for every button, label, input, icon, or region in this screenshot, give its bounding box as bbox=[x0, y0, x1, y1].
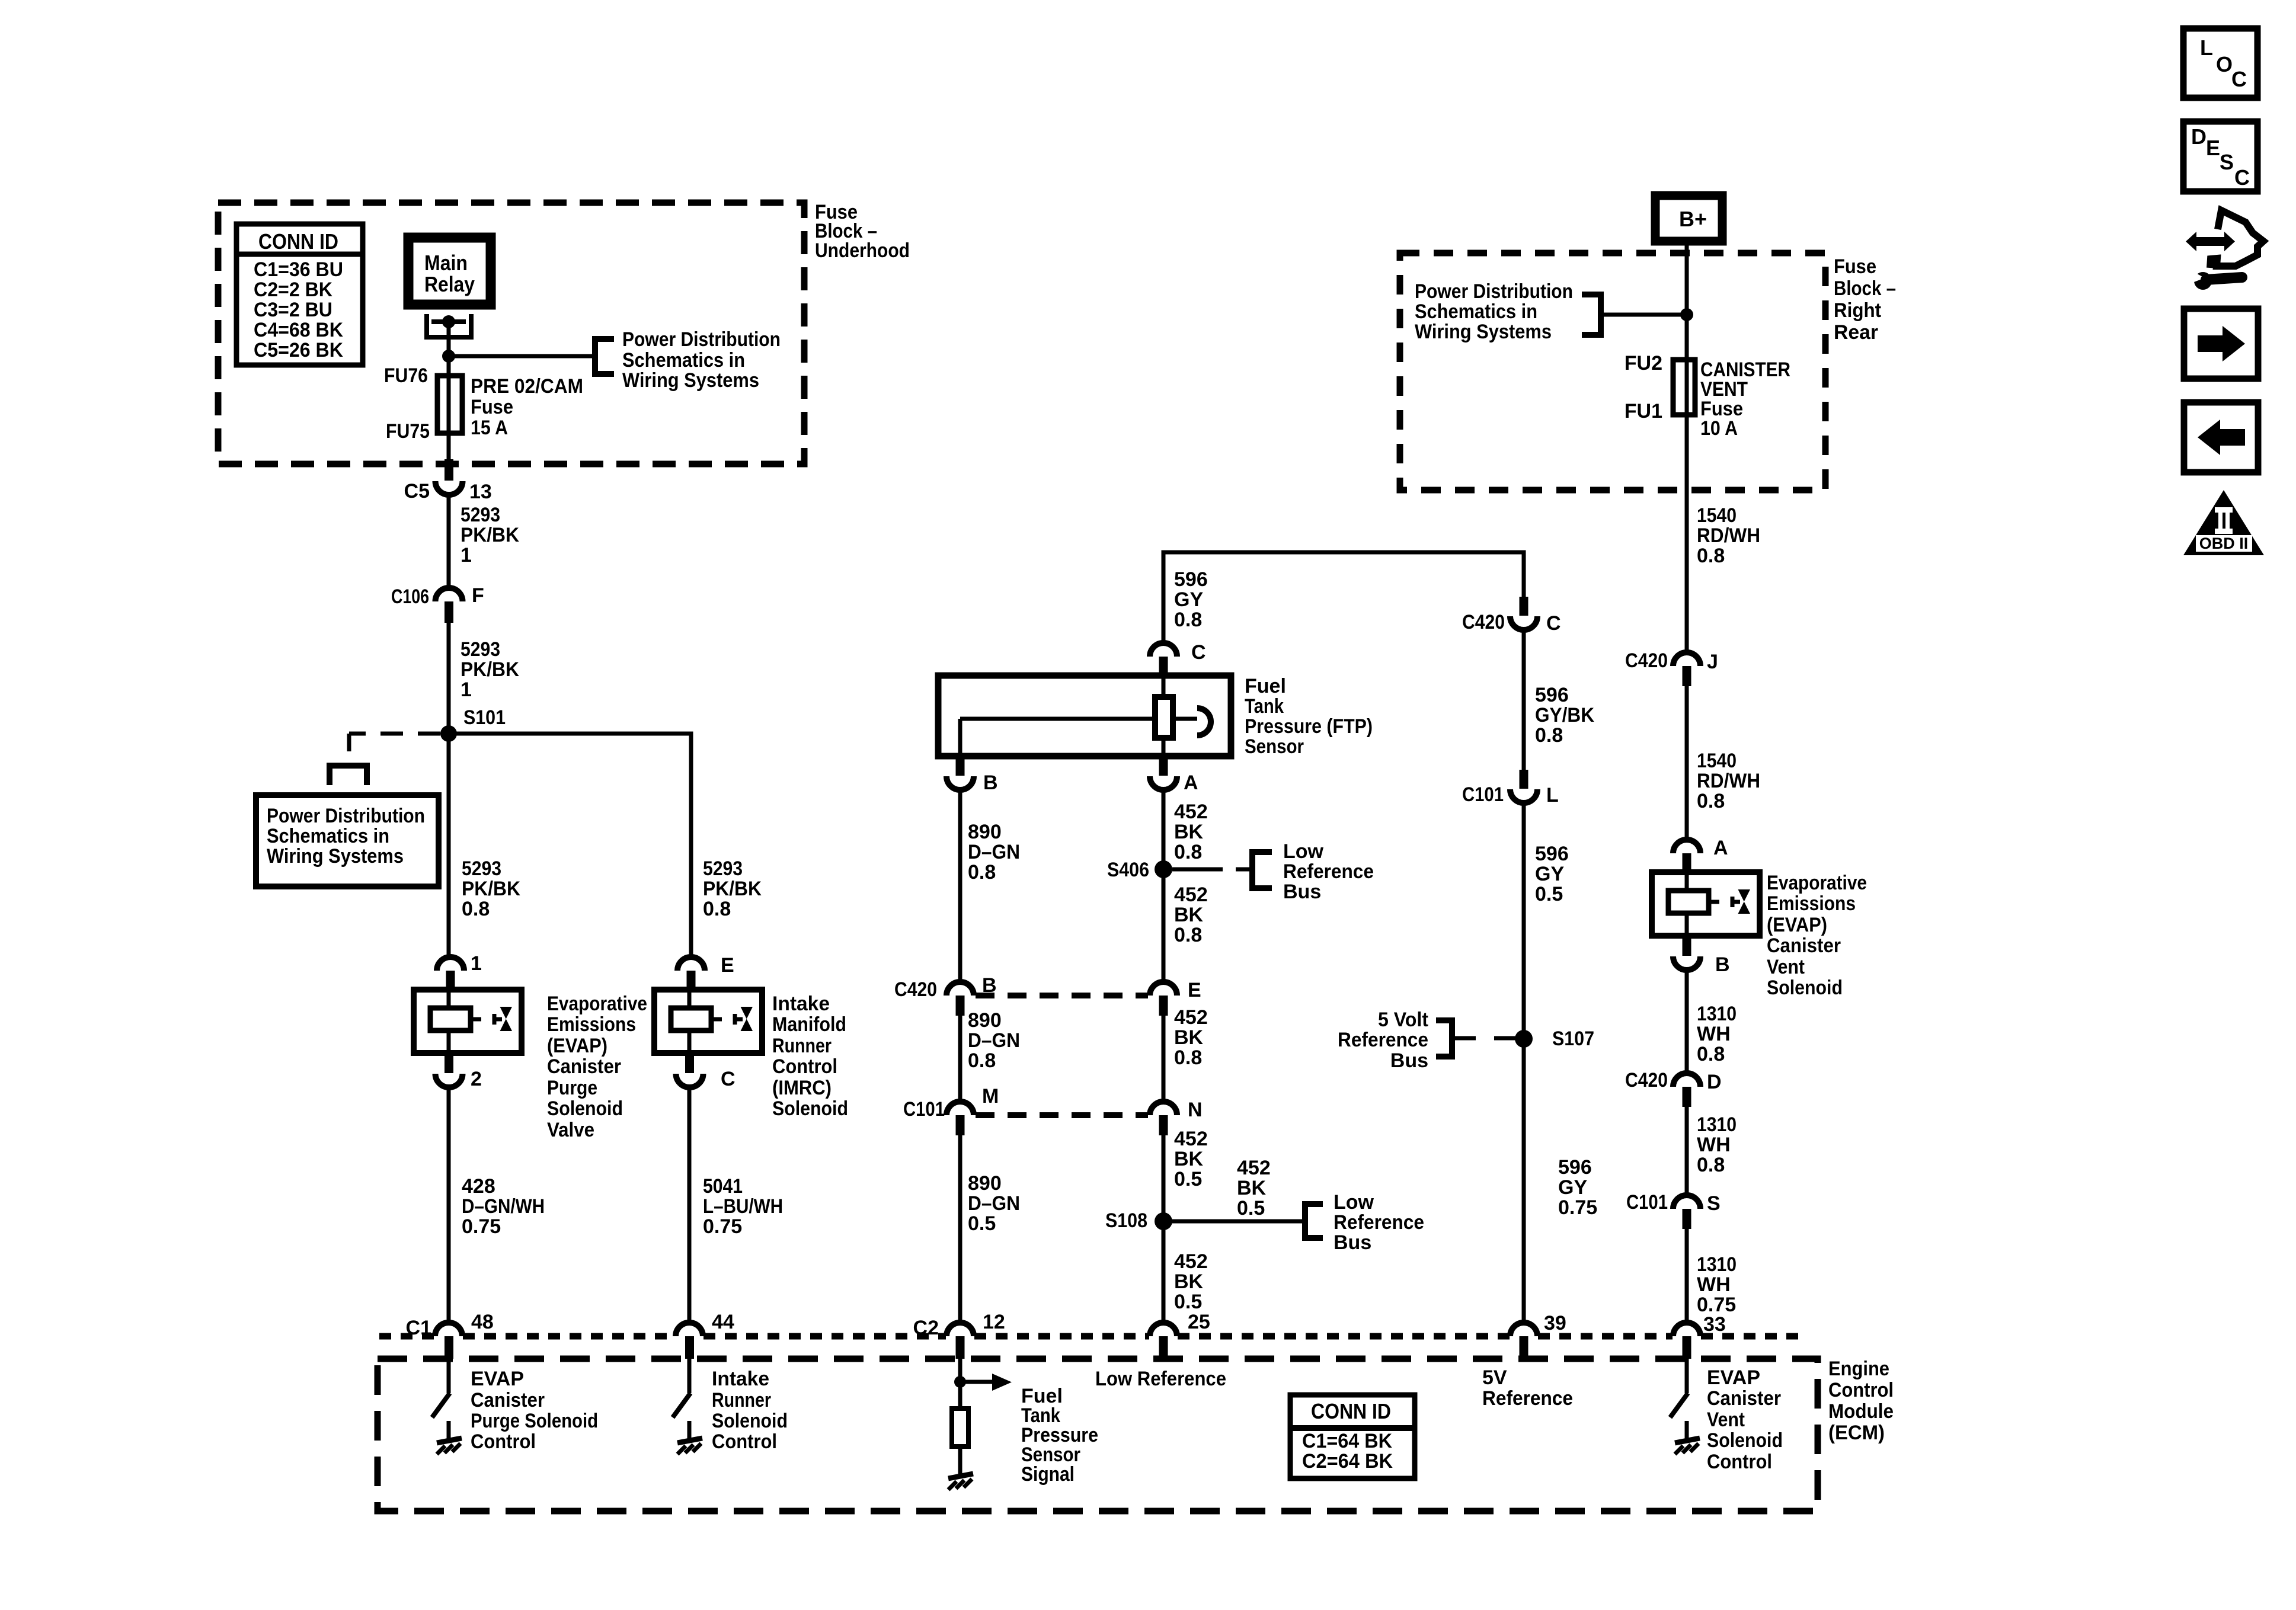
svg-text:0.8: 0.8 bbox=[462, 898, 490, 920]
wire: S down to 33 bbox=[1685, 1229, 1689, 1323]
svg-text:S: S bbox=[1707, 1192, 1721, 1215]
svg-text:Sensor: Sensor bbox=[1245, 735, 1304, 758]
svg-text:452: 452 bbox=[1174, 1250, 1208, 1273]
svg-text:C420: C420 bbox=[1462, 611, 1505, 633]
wire: pin C down to 44 bbox=[687, 1087, 692, 1323]
bracket: 5 volt reference bus bbox=[1436, 1020, 1452, 1057]
connector pin C (female half) bbox=[685, 1053, 694, 1073]
wire: FTP B down to C420 B bbox=[958, 790, 962, 982]
dashed link: S406 to low reference bus bracket bbox=[1172, 868, 1223, 872]
svg-text:WH: WH bbox=[1697, 1134, 1731, 1156]
connector C101 L (female half) bbox=[1520, 770, 1528, 789]
svg-text:39: 39 bbox=[1544, 1312, 1566, 1334]
wire: B to M bbox=[958, 1016, 962, 1102]
svg-text:5V: 5V bbox=[1482, 1366, 1507, 1389]
svg-text:Fuse: Fuse bbox=[471, 396, 513, 418]
wire: B down to C420 D bbox=[1685, 970, 1689, 1073]
svg-text:C: C bbox=[721, 1068, 736, 1090]
svg-text:A: A bbox=[1184, 772, 1198, 794]
svg-text:Runner: Runner bbox=[772, 1035, 832, 1057]
relay contact symbol bbox=[427, 314, 471, 337]
svg-text:0.8: 0.8 bbox=[1535, 724, 1563, 747]
svg-text:Power Distribution: Power Distribution bbox=[267, 805, 425, 827]
svg-text:S: S bbox=[2220, 150, 2234, 174]
svg-text:(IMRC): (IMRC) bbox=[772, 1077, 832, 1099]
svg-text:1: 1 bbox=[461, 544, 472, 566]
svg-text:Underhood: Underhood bbox=[815, 239, 910, 262]
svg-text:Evaporative: Evaporative bbox=[1767, 872, 1867, 894]
svg-text:D–GN: D–GN bbox=[968, 841, 1020, 863]
svg-text:Low: Low bbox=[1334, 1191, 1374, 1214]
svg-text:Emissions: Emissions bbox=[1767, 892, 1856, 915]
switch blade col1 bbox=[432, 1393, 450, 1417]
wire: S101 down to EVAP purge solenoid bbox=[447, 734, 451, 957]
svg-text:L–BU/WH: L–BU/WH bbox=[703, 1195, 783, 1218]
svg-text:Valve: Valve bbox=[547, 1119, 594, 1141]
dashed pair line C420 B-E bbox=[976, 993, 1148, 998]
svg-text:C2=2 BK: C2=2 BK bbox=[254, 279, 332, 301]
icon: back arrow box bbox=[2184, 402, 2258, 472]
wire into ECM col6 bbox=[1685, 1359, 1689, 1393]
wire: C106 to S101 bbox=[447, 623, 451, 734]
svg-text:25: 25 bbox=[1188, 1311, 1210, 1333]
svg-text:Vent: Vent bbox=[1707, 1409, 1745, 1431]
svg-text:0.5: 0.5 bbox=[1174, 1291, 1202, 1313]
svg-text:0.8: 0.8 bbox=[968, 1049, 996, 1072]
svg-text:Low: Low bbox=[1283, 840, 1324, 863]
svg-text:C420: C420 bbox=[1625, 1069, 1668, 1092]
svg-text:Engine: Engine bbox=[1828, 1358, 1889, 1380]
svg-text:BK: BK bbox=[1174, 1148, 1204, 1170]
svg-text:N: N bbox=[1188, 1099, 1203, 1121]
svg-text:C: C bbox=[1191, 641, 1206, 664]
svg-text:1310: 1310 bbox=[1697, 1113, 1737, 1136]
svg-text:5293: 5293 bbox=[461, 504, 500, 526]
icon: LOC box bbox=[2183, 28, 2257, 98]
bracket: low reference bus (S406) bbox=[1252, 852, 1272, 888]
svg-text:C101: C101 bbox=[903, 1098, 945, 1121]
connector pin 33 (male half at ECM) bbox=[1673, 1323, 1700, 1336]
svg-text:C: C bbox=[2231, 67, 2247, 91]
svg-text:D–GN: D–GN bbox=[968, 1192, 1020, 1215]
svg-text:OBD II: OBD II bbox=[2199, 534, 2249, 552]
wire: B+ down through fuse bbox=[1685, 241, 1689, 653]
svg-text:M: M bbox=[982, 1085, 999, 1108]
connector pin A of FTP (female half) bbox=[1159, 756, 1168, 776]
svg-text:C1=36 BU: C1=36 BU bbox=[254, 258, 343, 281]
svg-text:BK: BK bbox=[1237, 1177, 1267, 1199]
wire into ECM col1 bbox=[447, 1359, 451, 1393]
svg-text:BK: BK bbox=[1174, 821, 1204, 843]
svg-text:O: O bbox=[2216, 52, 2233, 76]
wire to resistor bbox=[958, 1382, 962, 1409]
svg-text:Canister: Canister bbox=[1767, 934, 1841, 957]
lower stub col1 bbox=[447, 1421, 451, 1439]
svg-text:Wiring Systems: Wiring Systems bbox=[267, 845, 404, 868]
svg-text:Emissions: Emissions bbox=[547, 1013, 636, 1036]
svg-text:J: J bbox=[1707, 651, 1718, 673]
icon: forward arrow box bbox=[2184, 309, 2258, 379]
svg-text:Reference: Reference bbox=[1334, 1211, 1424, 1234]
connector C2 pin 12 (male half at ECM) bbox=[946, 1323, 974, 1336]
svg-text:PK/BK: PK/BK bbox=[461, 658, 519, 681]
wire into ECM col3 bbox=[958, 1359, 962, 1382]
svg-text:F: F bbox=[472, 584, 484, 607]
svg-text:0.8: 0.8 bbox=[1697, 1154, 1725, 1176]
svg-text:Solenoid: Solenoid bbox=[772, 1097, 848, 1120]
svg-text:10 A: 10 A bbox=[1700, 417, 1738, 440]
signal arrow bbox=[960, 1380, 992, 1384]
connector C106 pin F (male half) bbox=[436, 588, 463, 601]
fuse FU1/FU2 CANISTER VENT 10A bbox=[1673, 360, 1695, 415]
svg-text:WH: WH bbox=[1697, 1273, 1731, 1296]
svg-text:PK/BK: PK/BK bbox=[462, 878, 520, 900]
svg-text:D: D bbox=[2191, 124, 2207, 149]
svg-text:0.8: 0.8 bbox=[1697, 790, 1725, 812]
svg-text:Canister: Canister bbox=[547, 1055, 621, 1078]
svg-text:1310: 1310 bbox=[1697, 1253, 1737, 1276]
connector C101 M (male half) bbox=[946, 1102, 974, 1115]
switch blade col6 bbox=[1670, 1393, 1688, 1417]
svg-text:PK/BK: PK/BK bbox=[703, 878, 762, 900]
svg-text:GY: GY bbox=[1535, 863, 1564, 885]
svg-text:Canister: Canister bbox=[471, 1389, 545, 1411]
svg-text:Rear: Rear bbox=[1834, 321, 1878, 344]
svg-text:(EVAP): (EVAP) bbox=[1767, 914, 1827, 936]
connector pin E (male half) bbox=[677, 957, 705, 971]
svg-text:0.8: 0.8 bbox=[1174, 841, 1202, 863]
svg-text:CONN ID: CONN ID bbox=[258, 229, 338, 254]
svg-text:GY: GY bbox=[1558, 1176, 1587, 1199]
svg-text:0.8: 0.8 bbox=[1697, 545, 1725, 567]
junction dot to power distribution tap bbox=[442, 350, 455, 363]
svg-text:596: 596 bbox=[1174, 568, 1208, 591]
fuse block right rear dashed box bbox=[1400, 253, 1825, 490]
svg-text:5293: 5293 bbox=[461, 638, 500, 661]
svg-text:C101: C101 bbox=[1626, 1191, 1668, 1214]
svg-text:44: 44 bbox=[712, 1311, 734, 1333]
svg-text:Canister: Canister bbox=[1707, 1387, 1781, 1410]
Main Relay (bold box) bbox=[408, 238, 491, 305]
ground col3 bbox=[948, 1474, 973, 1490]
svg-text:C5: C5 bbox=[404, 480, 430, 502]
svg-text:WH: WH bbox=[1697, 1023, 1731, 1045]
svg-text:C420: C420 bbox=[894, 978, 937, 1001]
svg-text:Purge Solenoid: Purge Solenoid bbox=[471, 1410, 598, 1432]
wire: S107 down to 39 bbox=[1522, 1039, 1526, 1323]
fuse FU75/FU76 PRE 02/CAM 15A bbox=[437, 376, 462, 433]
connector pin 1 (male half) bbox=[437, 957, 464, 971]
ECM dashed box bbox=[378, 1359, 1818, 1511]
wire: top run from FTP C up and over to C420 C bbox=[1163, 552, 1524, 644]
svg-text:Purge: Purge bbox=[547, 1077, 597, 1099]
svg-text:PRE 02/CAM: PRE 02/CAM bbox=[471, 375, 583, 398]
svg-text:Wiring Systems: Wiring Systems bbox=[1415, 321, 1552, 343]
svg-text:Wiring Systems: Wiring Systems bbox=[622, 369, 759, 392]
connector C420 J (male half) bbox=[1673, 652, 1700, 666]
svg-text:890: 890 bbox=[968, 821, 1002, 843]
svg-text:RD/WH: RD/WH bbox=[1697, 524, 1760, 547]
svg-text:B: B bbox=[983, 772, 998, 794]
svg-text:E: E bbox=[2206, 136, 2220, 160]
connector pin B (female half) bbox=[1683, 936, 1691, 956]
svg-text:452: 452 bbox=[1174, 1006, 1208, 1029]
svg-text:C: C bbox=[1546, 612, 1561, 635]
wire into ECM col2 bbox=[687, 1359, 692, 1393]
svg-text:Power Distribution: Power Distribution bbox=[1415, 280, 1573, 303]
svg-text:Bus: Bus bbox=[1283, 881, 1321, 903]
fuse block underhood dashed box bbox=[218, 203, 804, 464]
splice S101 bbox=[440, 725, 457, 742]
svg-text:Fuse: Fuse bbox=[1834, 255, 1876, 278]
svg-text:Bus: Bus bbox=[1390, 1049, 1428, 1072]
svg-text:Signal: Signal bbox=[1021, 1463, 1075, 1486]
svg-text:B+: B+ bbox=[1679, 207, 1707, 231]
svg-text:RD/WH: RD/WH bbox=[1697, 770, 1760, 792]
connector C1 pin 48 (male half at ECM) bbox=[435, 1323, 462, 1336]
svg-text:C5=26 BK: C5=26 BK bbox=[254, 339, 343, 361]
svg-text:C1=64 BK: C1=64 BK bbox=[1302, 1430, 1392, 1452]
CONN ID table (bottom) bbox=[1290, 1395, 1415, 1478]
splice S107 bbox=[1515, 1030, 1533, 1048]
svg-text:E: E bbox=[721, 954, 734, 977]
connector pin 44 (male half at ECM) bbox=[676, 1323, 703, 1336]
svg-text:0.75: 0.75 bbox=[1558, 1196, 1597, 1219]
svg-text:L: L bbox=[2200, 36, 2213, 60]
lower stub col2 bbox=[687, 1421, 692, 1439]
connector C420 C (female half) bbox=[1520, 597, 1528, 616]
svg-text:5293: 5293 bbox=[462, 857, 501, 880]
wire: FTP A down to S406 bbox=[1162, 790, 1166, 869]
dotted connector row line bbox=[379, 1333, 1808, 1340]
connector C420 B (male half) bbox=[946, 982, 974, 996]
svg-text:0.8: 0.8 bbox=[703, 898, 731, 920]
bracket: low reference bus (S108) bbox=[1305, 1204, 1323, 1238]
ground col1 bbox=[437, 1438, 462, 1454]
svg-text:D–GN/WH: D–GN/WH bbox=[462, 1195, 545, 1218]
B+ power feed (bold box) bbox=[1655, 196, 1722, 241]
svg-text:Reference: Reference bbox=[1338, 1029, 1428, 1051]
wire below resistor bbox=[958, 1446, 962, 1474]
svg-text:GY: GY bbox=[1174, 588, 1203, 611]
wire: S101 branch right to IMRC column bbox=[449, 734, 691, 957]
bracket over power distribution box bbox=[330, 766, 367, 785]
connector pin C of FTP (male half) bbox=[1150, 643, 1177, 657]
svg-text:Manifold: Manifold bbox=[772, 1013, 846, 1036]
svg-text:5 Volt: 5 Volt bbox=[1378, 1009, 1428, 1031]
svg-text:Power Distribution: Power Distribution bbox=[622, 328, 781, 351]
wire: D down to C101 S bbox=[1685, 1107, 1689, 1195]
fuel tank pressure sensor box bbox=[938, 676, 1231, 756]
wire: S108 down to 25 bbox=[1162, 1221, 1166, 1323]
svg-text:1540: 1540 bbox=[1697, 750, 1737, 772]
intake manifold runner control solenoid coil bbox=[654, 990, 762, 1053]
connector C101 S (male half) bbox=[1673, 1195, 1700, 1209]
svg-text:Module: Module bbox=[1828, 1400, 1894, 1423]
svg-text:Schematics in: Schematics in bbox=[1415, 300, 1537, 323]
connector C5 pin 13 (female half) bbox=[445, 459, 453, 481]
svg-text:0.8: 0.8 bbox=[1174, 1046, 1202, 1069]
wire: relay to junction bbox=[447, 322, 451, 356]
lower stub col6 bbox=[1685, 1421, 1689, 1439]
connector N (male half, pair of M) bbox=[1150, 1102, 1177, 1115]
ground col6 bbox=[1675, 1438, 1700, 1454]
svg-text:0.5: 0.5 bbox=[1237, 1197, 1265, 1219]
splice S108 bbox=[1155, 1212, 1172, 1230]
svg-text:Low Reference: Low Reference bbox=[1095, 1368, 1226, 1390]
svg-text:Tank: Tank bbox=[1245, 695, 1284, 718]
svg-text:0.5: 0.5 bbox=[1535, 883, 1563, 905]
svg-text:S107: S107 bbox=[1552, 1028, 1594, 1050]
connector C420 D (male half) bbox=[1673, 1073, 1700, 1087]
svg-text:Control: Control bbox=[1707, 1451, 1772, 1473]
dashed wire: S101 to power distribution bracket bbox=[349, 732, 440, 736]
connector pin 2 (female half) bbox=[445, 1053, 453, 1073]
svg-text:5293: 5293 bbox=[703, 857, 743, 880]
svg-text:B: B bbox=[1715, 953, 1730, 976]
svg-text:0.5: 0.5 bbox=[968, 1212, 996, 1235]
svg-text:C420: C420 bbox=[1625, 649, 1668, 672]
svg-text:596: 596 bbox=[1558, 1156, 1592, 1179]
svg-text:D: D bbox=[1707, 1071, 1722, 1093]
svg-text:Bus: Bus bbox=[1334, 1231, 1371, 1254]
svg-text:1: 1 bbox=[471, 952, 482, 975]
svg-text:2: 2 bbox=[471, 1068, 482, 1090]
svg-text:Control: Control bbox=[471, 1430, 536, 1453]
bracket: power distribution (right) bbox=[1582, 295, 1601, 335]
svg-text:BK: BK bbox=[1174, 1270, 1204, 1293]
svg-text:48: 48 bbox=[471, 1311, 494, 1333]
power distribution reference box bbox=[256, 795, 439, 886]
wire: junction to fuse and through bbox=[447, 356, 451, 462]
svg-text:C2=64 BK: C2=64 BK bbox=[1302, 1450, 1393, 1473]
svg-text:33: 33 bbox=[1703, 1313, 1726, 1336]
icon: OBD II triangle bbox=[2183, 490, 2264, 555]
svg-text:L: L bbox=[1546, 784, 1559, 806]
svg-text:Main: Main bbox=[424, 251, 468, 275]
junction dot col3 bbox=[954, 1376, 966, 1388]
svg-text:C: C bbox=[2234, 165, 2250, 190]
svg-text:596: 596 bbox=[1535, 684, 1569, 706]
wire: tap to bracket bbox=[449, 354, 595, 359]
svg-text:596: 596 bbox=[1535, 843, 1569, 865]
svg-text:BK: BK bbox=[1174, 1026, 1204, 1049]
svg-text:Vent: Vent bbox=[1767, 956, 1805, 978]
EVAP canister purge solenoid valve coil bbox=[414, 990, 522, 1053]
svg-text:C106: C106 bbox=[391, 585, 429, 608]
svg-text:EVAP: EVAP bbox=[1707, 1366, 1760, 1389]
svg-text:0.8: 0.8 bbox=[1697, 1043, 1725, 1065]
svg-text:FU76: FU76 bbox=[384, 364, 428, 387]
svg-text:Solenoid: Solenoid bbox=[712, 1410, 788, 1432]
svg-text:0.75: 0.75 bbox=[462, 1215, 501, 1238]
icon: DESC box bbox=[2183, 121, 2257, 191]
svg-text:Solenoid: Solenoid bbox=[547, 1097, 623, 1120]
svg-text:15 A: 15 A bbox=[471, 417, 508, 439]
wire: S108 to low reference bus bracket bbox=[1163, 1219, 1305, 1224]
connector pin A (male half) bbox=[1673, 840, 1700, 853]
svg-text:452: 452 bbox=[1237, 1157, 1271, 1179]
svg-text:12: 12 bbox=[983, 1311, 1005, 1333]
svg-text:1: 1 bbox=[461, 678, 472, 701]
svg-text:0.8: 0.8 bbox=[1174, 924, 1202, 946]
svg-text:Reference: Reference bbox=[1283, 860, 1374, 883]
svg-text:0.8: 0.8 bbox=[1174, 609, 1202, 631]
svg-text:1540: 1540 bbox=[1697, 504, 1737, 527]
svg-text:452: 452 bbox=[1174, 801, 1208, 823]
dashed pair line C101 M-N bbox=[976, 1112, 1148, 1118]
svg-text:1310: 1310 bbox=[1697, 1003, 1737, 1025]
svg-text:5041: 5041 bbox=[703, 1175, 743, 1198]
svg-text:FU75: FU75 bbox=[386, 420, 430, 443]
EVAP canister vent solenoid coil bbox=[1652, 872, 1760, 936]
switch blade col2 bbox=[673, 1393, 690, 1417]
FTP internals: potentiometer bbox=[1162, 676, 1166, 697]
svg-text:A: A bbox=[1713, 837, 1728, 859]
svg-text:PK/BK: PK/BK bbox=[461, 524, 519, 546]
svg-text:E: E bbox=[1188, 979, 1201, 1001]
svg-text:Fuel: Fuel bbox=[1245, 675, 1286, 697]
svg-text:C3=2 BU: C3=2 BU bbox=[254, 299, 332, 321]
wire: C420 C to C101 L bbox=[1522, 630, 1526, 770]
svg-text:C4=68 BK: C4=68 BK bbox=[254, 319, 343, 341]
svg-text:Runner: Runner bbox=[712, 1389, 771, 1411]
wire: M down to C2-12 bbox=[958, 1135, 962, 1323]
wire: N down to S108 bbox=[1162, 1135, 1166, 1221]
svg-text:FU1: FU1 bbox=[1625, 400, 1662, 422]
svg-text:13: 13 bbox=[469, 481, 492, 503]
svg-text:428: 428 bbox=[462, 1175, 495, 1198]
svg-text:452: 452 bbox=[1174, 884, 1208, 906]
CONN ID table (top) bbox=[236, 224, 363, 365]
connector pin B of FTP (female half) bbox=[956, 756, 965, 776]
wire: J down to A bbox=[1685, 686, 1689, 839]
svg-text:Solenoid: Solenoid bbox=[1767, 977, 1843, 999]
connector E (male half, pair of B) bbox=[1150, 982, 1177, 996]
svg-text:Intake: Intake bbox=[712, 1368, 769, 1390]
svg-text:Relay: Relay bbox=[424, 272, 475, 296]
wire: L down to S107 bbox=[1522, 803, 1526, 1039]
svg-text:890: 890 bbox=[968, 1172, 1002, 1195]
svg-text:Control: Control bbox=[1828, 1379, 1894, 1401]
dashed link: bracket to S107 bbox=[1452, 1036, 1476, 1041]
connector pin 39 (male half at ECM) bbox=[1510, 1323, 1537, 1336]
svg-text:Right: Right bbox=[1834, 299, 1881, 322]
svg-text:890: 890 bbox=[968, 1009, 1002, 1032]
off-page bracket: power distribution bbox=[595, 339, 614, 374]
svg-text:Evaporative: Evaporative bbox=[547, 993, 647, 1015]
svg-text:Schematics in: Schematics in bbox=[267, 825, 389, 847]
ground col2 bbox=[677, 1438, 702, 1454]
svg-text:CONN ID: CONN ID bbox=[1311, 1399, 1391, 1423]
wire: C5 to C106 bbox=[447, 495, 451, 588]
svg-text:BK: BK bbox=[1174, 904, 1204, 926]
svg-text:GY/BK: GY/BK bbox=[1535, 704, 1594, 726]
svg-text:Control: Control bbox=[772, 1055, 837, 1078]
connector pin 25 (male half at ECM) bbox=[1150, 1323, 1177, 1336]
svg-text:(EVAP): (EVAP) bbox=[547, 1035, 607, 1057]
junction: relay contact bbox=[442, 315, 455, 328]
svg-text:(ECM): (ECM) bbox=[1828, 1422, 1885, 1444]
svg-text:C101: C101 bbox=[1462, 783, 1504, 806]
svg-text:0.8: 0.8 bbox=[968, 861, 996, 884]
svg-text:FU2: FU2 bbox=[1625, 352, 1662, 375]
icon: vehicle diagnostics (car + arrows + wrench) bbox=[2186, 210, 2263, 290]
svg-text:0.75: 0.75 bbox=[703, 1215, 742, 1238]
svg-text:Solenoid: Solenoid bbox=[1707, 1429, 1783, 1452]
wire: pin 2 down to C1-48 bbox=[447, 1087, 451, 1323]
svg-text:EVAP: EVAP bbox=[471, 1368, 524, 1390]
